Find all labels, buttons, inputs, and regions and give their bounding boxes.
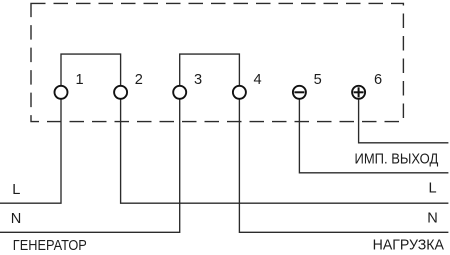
wire: jumper hat linking terminals 3 and 4 [180,54,240,86]
wire: terminal 2 down to load L line [121,99,449,204]
svg-text:ГЕНЕРАТОР: ГЕНЕРАТОР [13,238,87,254]
terminal 2 [114,86,127,99]
svg-text:N: N [11,211,22,227]
terminal 1 [55,86,68,99]
wire: terminal 6 (plus) down to impulse output upper line [359,99,449,143]
svg-text:3: 3 [194,72,202,88]
terminal 6 (impulse output plus) [352,86,365,99]
wire: terminal 4 down to load N line [239,99,448,233]
svg-text:L: L [12,182,20,198]
terminal 5 (impulse output minus) [293,86,306,99]
svg-text:НАГРУЗКА: НАГРУЗКА [373,237,445,253]
svg-text:N: N [427,211,438,227]
svg-text:L: L [429,181,437,197]
wire: terminal 3 down to generator N line [0,99,180,233]
wire: jumper hat linking terminals 1 and 2 [61,54,121,86]
wire: terminal 1 down to generator L line [0,99,61,204]
wire: terminal 5 (minus) down to impulse output lower line [299,99,448,173]
svg-text:4: 4 [254,72,262,88]
svg-text:ИМП. ВЫХОД: ИМП. ВЫХОД [355,151,439,167]
svg-text:2: 2 [135,72,143,88]
meter enclosure (dashed boundary) [31,3,403,121]
svg-text:1: 1 [75,72,83,88]
terminal 3 [173,86,186,99]
svg-text:5: 5 [314,72,322,88]
svg-text:6: 6 [374,72,382,88]
terminal 4 [233,86,246,99]
